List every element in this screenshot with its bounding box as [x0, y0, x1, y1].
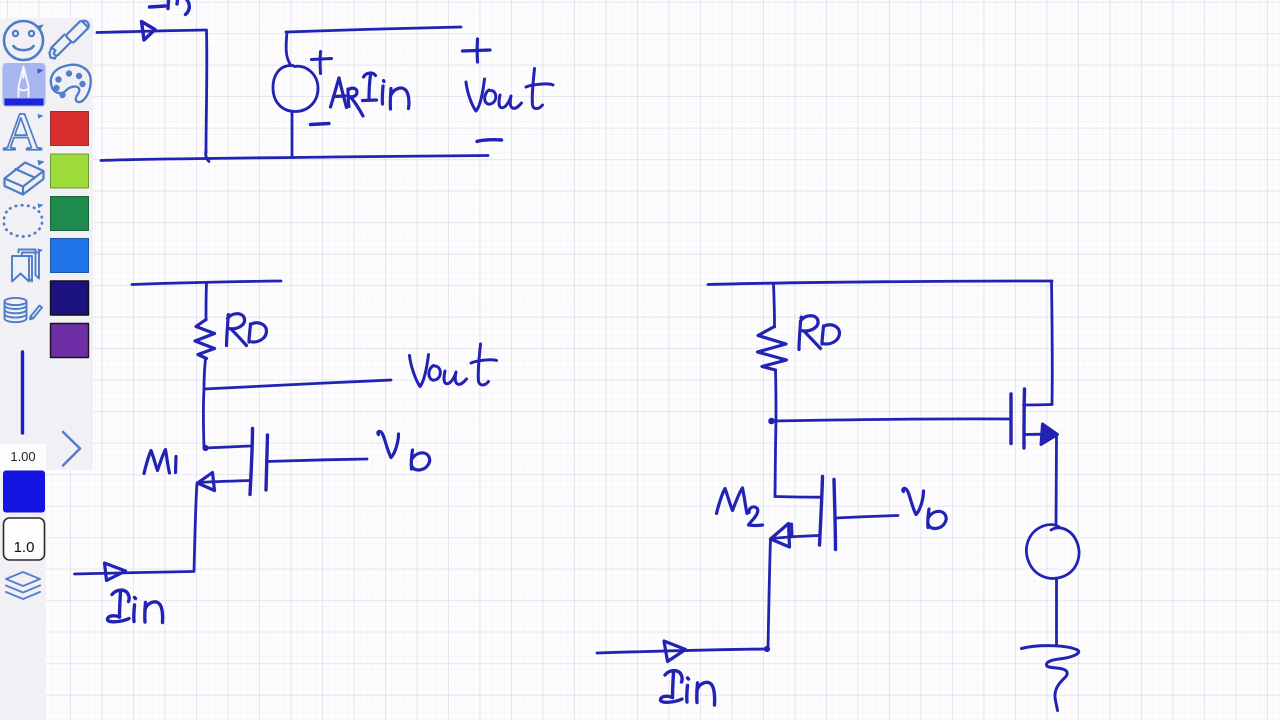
toolbar white band behind 1.00 [0, 444, 46, 470]
ground squiggle [1022, 646, 1079, 711]
wire: rail to resistor [774, 284, 775, 327]
toolbar icon: pen tool (selected) [3, 63, 46, 107]
toolbar icon: database + pencil [5, 298, 43, 322]
M2 channel bar [820, 477, 823, 546]
wire: bottom rail [101, 156, 488, 161]
toolbar: colour swatch bright blue [51, 239, 89, 273]
M2 gate bar [834, 480, 836, 550]
toolbar: colour swatch green [51, 197, 89, 231]
toolbar icon: layers [6, 572, 40, 599]
wire: gate node down to M2 drain bend [775, 420, 776, 497]
wire: rail to resistor [205, 283, 208, 320]
label Vb (bias voltage) [378, 431, 430, 470]
toolbar: colour swatch navy [51, 281, 89, 315]
label Vout (output) [410, 344, 497, 387]
wire: resistor to gate node [774, 370, 777, 420]
svg-text:1.00: 1.00 [10, 449, 35, 464]
toolbar icon: eraser [5, 161, 44, 195]
toolbar icon: smiley (selection tool) [4, 21, 43, 60]
wire: input lead [97, 30, 206, 33]
arrowhead on input wire [105, 563, 126, 581]
M1 source arrowhead [198, 473, 215, 491]
svg-text:A: A [3, 102, 42, 162]
wire: Vout lead [204, 380, 391, 389]
label Vout (output voltage) [466, 69, 553, 112]
M1 gate bar [266, 435, 268, 490]
wire: source bottom to bottom rail [291, 112, 294, 158]
plus mark at source [312, 52, 332, 74]
label M1 (transistor name) [144, 450, 176, 474]
minus mark at source [311, 124, 330, 125]
wire: gate node to M3 gate [771, 419, 1010, 421]
dependent current source U1 (circle) [273, 65, 318, 111]
wire: input branch vertical [205, 30, 209, 153]
toolbar: colour swatch purple [51, 324, 89, 358]
toolbar: stroke width slider [21, 352, 24, 433]
toolbar: colour swatch light green [51, 154, 89, 188]
M2 source arrow extra tick [790, 524, 794, 536]
wire: top rail [708, 281, 1052, 285]
wire: input lead [597, 649, 767, 653]
label ARIin (controlled source value) [331, 73, 409, 116]
current source I1 (circle) [1026, 525, 1079, 579]
M3 channel bar [1022, 389, 1026, 448]
toolbar: opacity box 1.0 [4, 518, 45, 560]
node dot at M1 drain [203, 445, 208, 450]
toolbar: colour swatch red [51, 112, 89, 146]
label Vb (bias voltage) [903, 488, 946, 528]
label Iin (input current) [660, 671, 714, 705]
wire: tick from top rail to source top [286, 32, 291, 66]
M3 source wire [1025, 433, 1057, 436]
wire: top rail right end down to M3 drain [1050, 281, 1054, 404]
plus mark at output [463, 39, 491, 62]
M1 drain wire [205, 446, 251, 448]
wire: top rail [132, 281, 281, 285]
wire: M3 source down to current source [1055, 435, 1058, 525]
minus mark at output [477, 140, 502, 142]
toolbar icon: palette [51, 65, 91, 102]
arrowhead on input wire [664, 641, 686, 662]
wire: input lead [75, 572, 193, 575]
M1 channel bar [250, 429, 253, 495]
wire: M1 source down to input [194, 483, 197, 572]
toolbar: expand chevron [63, 432, 80, 466]
wire: node to M1 drain [202, 389, 205, 447]
M1 gate wire to Vb [267, 459, 368, 462]
junction tick on bottom rail [206, 150, 209, 162]
node dot at gate node [769, 418, 775, 424]
toolbar icon: eyedropper [50, 20, 89, 58]
toolbar icon: lasso select [4, 205, 42, 236]
M2 source wire [772, 536, 819, 539]
resistor R_D (zigzag) [195, 320, 215, 359]
wire: bend to M2 drain [775, 495, 822, 499]
toolbar icon: pages [12, 250, 39, 282]
label RD (resistor value) [799, 316, 840, 350]
M3 gate bar [1009, 394, 1012, 444]
wire: current source to ground [1055, 579, 1058, 646]
resistor R_D (zigzag) [758, 327, 787, 371]
toolbar background column 1 [0, 18, 46, 720]
M1 source wire [199, 481, 250, 483]
wire: top rail [286, 27, 461, 32]
label RD (resistor value) [227, 314, 267, 346]
toolbar background column 2 [46, 18, 93, 470]
M3 drain wire [1024, 403, 1053, 406]
junction blob at input corner [764, 646, 769, 651]
M2 gate wire to Vb [836, 516, 898, 519]
arrowhead on input wire [142, 22, 156, 41]
label Iin (input current) [107, 590, 162, 622]
svg-text:1.0: 1.0 [14, 539, 35, 556]
label Iin (clipped at top edge) [150, 0, 190, 15]
wire: M2 source down to input [768, 539, 771, 648]
M2 source arrowhead [771, 524, 790, 548]
label M2 (transistor name) [717, 488, 763, 525]
M3 source arrowhead [1041, 424, 1058, 445]
wire: resistor to output node [204, 359, 206, 390]
toolbar: current colour swatch (blue) [3, 471, 45, 513]
